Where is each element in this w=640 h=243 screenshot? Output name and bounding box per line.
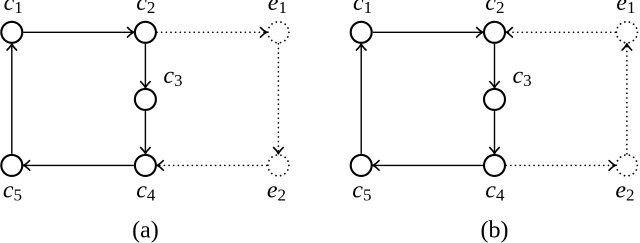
dotted edge e1->e2 (a)	[274, 44, 284, 154]
node c1 (b)	[351, 22, 372, 43]
svg-text:(a): (a)	[132, 218, 159, 243]
edge c1->c2 (b)	[373, 28, 483, 38]
node c1 (a)	[1, 22, 22, 43]
dotted edge c4->e2 (b)	[506, 161, 615, 171]
edge c3->c4 (b)	[490, 111, 500, 154]
svg-text:c2: c2	[485, 0, 504, 17]
node e2 (a)	[268, 155, 289, 176]
svg-text:e1: e1	[616, 0, 635, 17]
svg-text:(b): (b)	[481, 218, 509, 243]
node c5 (b)	[351, 155, 372, 176]
node c4 (b)	[484, 155, 505, 176]
edge c3->c4 (a)	[141, 111, 151, 154]
svg-text:e1: e1	[268, 0, 287, 17]
edge c5->c1 (a)	[7, 44, 17, 154]
dotted edge c2->e1 (a)	[157, 28, 267, 38]
svg-text:c2: c2	[136, 0, 155, 17]
node c4 (a)	[135, 155, 156, 176]
edge c2->c3 (a)	[141, 44, 151, 88]
edge c4->c5 (b)	[373, 161, 483, 171]
svg-text:c1: c1	[4, 0, 23, 17]
dotted edge e2->e1 (b)	[622, 44, 632, 154]
node c3 (a)	[135, 89, 156, 110]
node c2 (b)	[484, 22, 505, 43]
edge c4->c5 (a)	[23, 161, 133, 171]
node e2 (b)	[616, 155, 637, 176]
node c5 (a)	[1, 155, 22, 176]
node c2 (a)	[135, 22, 156, 43]
node e1 (b)	[616, 22, 637, 43]
node e1 (a)	[268, 22, 289, 43]
edge c5->c1 (b)	[356, 44, 366, 154]
edge c2->c3 (b)	[490, 44, 500, 88]
edge c1->c2 (a)	[23, 28, 133, 38]
node c3 (b)	[484, 89, 505, 110]
svg-text:c1: c1	[353, 0, 372, 17]
dotted edge e2->c4 (a)	[157, 161, 267, 171]
dotted edge e1->c2 (b)	[506, 28, 615, 38]
